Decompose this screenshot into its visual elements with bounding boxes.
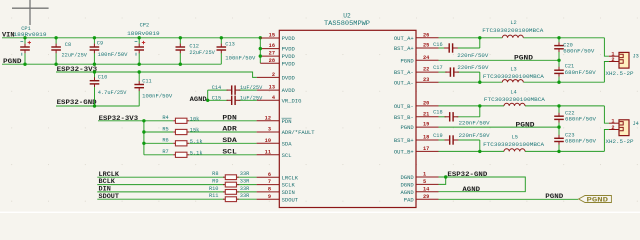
capacitor C9: [90, 38, 100, 64]
pin 27 PVDD: [260, 55, 279, 57]
svg-text:11: 11: [265, 149, 271, 155]
junction PVDD pin27: [259, 54, 262, 57]
wire ADR right: [189, 131, 256, 133]
svg-text:680nF/50V: 680nF/50V: [565, 116, 597, 122]
capacitor C15: [227, 96, 241, 105]
svg-text:L5: L5: [512, 135, 518, 141]
svg-text:R6: R6: [162, 138, 168, 144]
pin 4 VR_DIG: [257, 99, 280, 101]
wire VR_DIG right: [239, 99, 257, 101]
capacitor C18: [445, 112, 459, 121]
pin 7: [257, 184, 280, 186]
pin 28 PVDD: [260, 62, 279, 64]
wire SDOUT left: [97, 198, 224, 200]
svg-text:ESP32-GND: ESP32-GND: [447, 171, 487, 179]
capacitor C14: [227, 85, 241, 94]
wire SCL left: [144, 154, 173, 156]
wire BST_B- a: [439, 116, 447, 118]
wire BCLK left: [97, 184, 224, 186]
capacitor C21: [554, 60, 564, 82]
svg-text:23: 23: [423, 77, 429, 83]
svg-text:C11: C11: [142, 79, 152, 85]
junction 3V3 x139.2: [138, 70, 141, 73]
svg-text:22uF/25V: 22uF/25V: [62, 53, 88, 59]
svg-text:SDIN: SDIN: [282, 189, 295, 196]
svg-text:C14: C14: [212, 85, 222, 91]
svg-text:C9: C9: [97, 40, 103, 46]
wire PGND A: [439, 59, 560, 61]
svg-text:14: 14: [423, 186, 430, 192]
junction A (559.0,37.8): [557, 36, 560, 39]
svg-text:CP1: CP1: [21, 26, 31, 32]
junction B (559.0,151.4): [557, 150, 560, 153]
svg-text:2: 2: [611, 57, 614, 63]
pin 14: [416, 191, 439, 193]
svg-text:2: 2: [272, 72, 275, 78]
capacitor C11: [134, 72, 144, 106]
wire OUT_A+ b: [523, 37, 604, 39]
svg-text:AGND: AGND: [400, 189, 414, 196]
junction PVDD pin16: [259, 47, 262, 50]
svg-text:SCLK: SCLK: [282, 182, 296, 189]
svg-text:1: 1: [423, 172, 426, 178]
svg-text:9: 9: [268, 194, 271, 200]
wire BST_B- up: [479, 106, 481, 117]
svg-text:33R: 33R: [240, 193, 250, 199]
svg-text:R5: R5: [162, 126, 168, 132]
svg-text:DGND: DGND: [400, 182, 414, 189]
junction PGND x25: [23, 62, 26, 65]
pin 6: [257, 176, 280, 178]
wire BST_B+ down: [479, 140, 481, 151]
wire BST_A- down: [479, 72, 481, 82]
capacitor C23: [554, 127, 564, 151]
svg-text:15: 15: [269, 33, 275, 39]
svg-text:189Rv0019: 189Rv0019: [127, 31, 160, 37]
svg-text:6: 6: [268, 172, 271, 178]
svg-text:680nF/50V: 680nF/50V: [563, 48, 595, 54]
svg-text:PVDD: PVDD: [282, 35, 296, 42]
svg-text:R11: R11: [209, 193, 219, 199]
svg-text:C8: C8: [65, 42, 71, 48]
svg-text:PVDD: PVDD: [282, 46, 296, 53]
svg-text:PGND: PGND: [545, 193, 563, 201]
pin 9: [257, 198, 280, 200]
svg-text:12: 12: [265, 115, 271, 121]
junction B (559.0,127.1): [557, 125, 560, 128]
wire OUT_A- a: [439, 81, 503, 83]
svg-text:PVDD: PVDD: [282, 60, 296, 67]
svg-text:C17: C17: [433, 65, 443, 71]
svg-text:100nF/50V: 100nF/50V: [142, 94, 173, 100]
svg-text:20: 20: [423, 101, 429, 107]
svg-text:ADR: ADR: [222, 126, 237, 134]
wire DIN right: [237, 191, 256, 193]
svg-text:LRCLK: LRCLK: [282, 174, 299, 181]
pin 11: [257, 154, 280, 156]
wire ESP32-GND rail: [56, 105, 139, 107]
wire SDA right: [189, 142, 256, 144]
svg-text:1uF/25V: 1uF/25V: [240, 85, 263, 91]
resistor R5: [173, 129, 189, 134]
wire VIN rail: [2, 37, 260, 39]
pin 15 PVDD: [260, 37, 279, 39]
junction VIN x139.2: [138, 36, 141, 39]
svg-text:PGND: PGND: [514, 54, 533, 62]
wire BST_A+ b: [456, 47, 480, 49]
svg-text:XH2.5-2P: XH2.5-2P: [606, 71, 634, 77]
wire to J4 pin2: [604, 130, 609, 152]
svg-text:33R: 33R: [240, 186, 250, 192]
svg-text:220nF/50V: 220nF/50V: [459, 121, 491, 127]
pin 21: [416, 116, 439, 118]
junction 3V3dist PDN: [142, 119, 145, 122]
svg-text:ESP32-3V3: ESP32-3V3: [57, 66, 98, 74]
svg-text:PGND: PGND: [400, 124, 414, 131]
svg-text:R4: R4: [162, 115, 168, 121]
junction 3V3dist ADR: [142, 130, 145, 133]
capacitor C16: [444, 43, 458, 52]
svg-text:C19: C19: [433, 133, 443, 139]
wire AVDD left: [208, 89, 228, 91]
wire OUT_B+ a: [439, 150, 505, 152]
svg-text:BST_A+: BST_A+: [394, 45, 414, 52]
junction B (479.8,151.4): [478, 150, 481, 153]
svg-text:FTC3030200100MBCA: FTC3030200100MBCA: [484, 97, 546, 103]
svg-text:FTC3030200100MBCA: FTC3030200100MBCA: [482, 28, 544, 34]
junction VIN x56.1: [54, 36, 57, 39]
junction PGND x94.4: [93, 62, 96, 65]
pin 16 PVDD: [260, 48, 279, 50]
svg-text:DGND: DGND: [400, 174, 414, 181]
pin 12: [257, 120, 280, 122]
svg-text:J3: J3: [633, 54, 639, 60]
junction VIN x260.3: [259, 36, 262, 39]
svg-text:OUT_A-: OUT_A-: [394, 79, 414, 86]
junction 3V3 x94.5: [93, 70, 96, 73]
svg-text:AGND: AGND: [190, 96, 207, 104]
inductor L4: [504, 103, 525, 106]
svg-text:24: 24: [423, 55, 430, 61]
svg-text:DVDD: DVDD: [282, 75, 296, 82]
wire PGND rail: [2, 63, 221, 65]
junction A (479.8,37.8): [478, 36, 481, 39]
svg-text:BST_B+: BST_B+: [394, 137, 414, 144]
svg-text:5: 5: [423, 179, 426, 185]
svg-text:L4: L4: [510, 90, 516, 96]
wire OUT_B- a: [439, 105, 505, 107]
svg-text:220nF/50V: 220nF/50V: [457, 65, 489, 71]
svg-text:XH2.5-2P: XH2.5-2P: [606, 139, 634, 145]
svg-text:ESP32-3V3: ESP32-3V3: [99, 115, 139, 123]
svg-text:29: 29: [423, 194, 429, 200]
svg-text:OUT_B-: OUT_B-: [394, 103, 414, 110]
svg-text:AVDD: AVDD: [282, 87, 296, 94]
wire ESP32-3V3 rail to DVDD: [56, 72, 257, 77]
pin 26: [416, 37, 439, 39]
wire OUT_B+ b: [525, 150, 604, 152]
resistor R11: [223, 197, 239, 202]
svg-text:SCL: SCL: [282, 152, 292, 159]
svg-text:ESP32-GND: ESP32-GND: [57, 99, 97, 107]
svg-text:26: 26: [423, 32, 429, 38]
svg-text:2: 2: [611, 125, 614, 131]
junction A (559.0,82.2): [557, 81, 560, 84]
junction 3V3dist SDA: [142, 142, 145, 145]
capacitor C20: [554, 38, 564, 61]
pin 10: [257, 142, 280, 144]
svg-text:5.1k: 5.1k: [190, 150, 203, 156]
resistor R6: [173, 141, 189, 146]
junction PGND x139.2: [138, 62, 141, 65]
wire DGND-AGND loop: [439, 177, 526, 192]
svg-text:BST_A-: BST_A-: [394, 69, 414, 76]
pin 25: [416, 47, 439, 49]
resistor R9: [223, 182, 239, 187]
svg-text:VR_DIG: VR_DIG: [282, 97, 302, 104]
wire BCLK right: [237, 184, 256, 186]
svg-text:220nF/50V: 220nF/50V: [457, 53, 489, 59]
svg-text:SDA: SDA: [282, 140, 293, 147]
wire BST_B- b: [457, 116, 480, 118]
pin 5: [416, 183, 439, 185]
wire VR_DIG left: [207, 99, 228, 101]
junction DGND: [444, 175, 447, 178]
svg-text:CP2: CP2: [140, 22, 150, 28]
pin 19: [416, 126, 439, 128]
capacitor C17: [445, 67, 459, 76]
pin 22: [416, 71, 439, 73]
connector J4: [609, 118, 629, 135]
svg-text:10: 10: [265, 138, 271, 144]
wire to J3 pin2: [604, 62, 609, 83]
svg-text:15k: 15k: [190, 128, 200, 134]
svg-text:OUT_B+: OUT_B+: [394, 149, 414, 156]
svg-text:PVDD: PVDD: [282, 53, 296, 60]
svg-text:13: 13: [269, 85, 275, 91]
junction VIN x94.4: [93, 36, 96, 39]
svg-text:PGND: PGND: [400, 57, 414, 64]
wire ADR left: [144, 131, 173, 133]
svg-text:TAS5805MPWP: TAS5805MPWP: [324, 20, 370, 27]
svg-text:25: 25: [423, 43, 429, 49]
svg-text:21: 21: [423, 111, 429, 117]
wire BST_B+ a: [439, 139, 447, 141]
svg-text:10k: 10k: [190, 116, 200, 122]
wire BST_B+ b: [457, 139, 480, 141]
capacitor C12: [176, 38, 186, 64]
svg-text:4.7uF/25V: 4.7uF/25V: [98, 90, 127, 96]
svg-text:1: 1: [611, 118, 614, 124]
wire BST_A- b: [457, 71, 480, 73]
junction ESP32-GND x94: [93, 104, 96, 107]
junction PGND x56.1: [54, 62, 57, 65]
wire BST_A+ a: [439, 47, 446, 49]
svg-text:C15: C15: [212, 95, 222, 101]
wire AGND vertical: [207, 90, 209, 100]
wire LRCLK right: [237, 176, 256, 178]
pin 2 DVDD: [257, 76, 280, 78]
svg-text:U2: U2: [343, 12, 351, 19]
svg-text:22: 22: [423, 67, 429, 73]
resistor R10: [223, 190, 239, 195]
junction B (479.8,105.9): [478, 104, 481, 107]
wire PVDD vertical: [259, 38, 261, 63]
pin 17: [416, 150, 439, 152]
svg-text:C18: C18: [433, 109, 443, 115]
svg-text:220nF/50V: 220nF/50V: [459, 133, 491, 139]
wire SDA left: [144, 142, 173, 144]
pin 3: [257, 131, 280, 133]
svg-text:33R: 33R: [240, 179, 250, 185]
connector J3: [609, 51, 629, 68]
svg-text:R7: R7: [162, 149, 168, 155]
wire 3V3 distribution vertical: [143, 121, 145, 155]
svg-text:PGND: PGND: [587, 197, 609, 204]
svg-text:BST_B-: BST_B-: [394, 114, 414, 121]
pin 20: [416, 105, 439, 107]
wire BST_A- a: [439, 71, 447, 73]
inductor L3: [502, 80, 523, 83]
power symbol PGND global label: [579, 196, 612, 204]
wire SDOUT right: [237, 198, 256, 200]
svg-text:C16: C16: [433, 42, 443, 48]
capacitor C19: [445, 135, 459, 144]
junction VIN x221.3: [220, 36, 223, 39]
svg-text:SDA: SDA: [222, 137, 237, 145]
svg-text:ADR/*FAULT: ADR/*FAULT: [282, 129, 316, 136]
op-amp U2 TAS5805MPWP body: [279, 30, 416, 207]
junction VIN x25: [23, 36, 26, 39]
wire OUT_B- b: [525, 105, 604, 107]
svg-text:5.1k: 5.1k: [190, 139, 203, 145]
wire PAD to PGND: [439, 198, 579, 200]
wire BST_A+ up: [479, 38, 481, 48]
svg-text:8: 8: [268, 187, 271, 193]
wire PDN right: [189, 120, 256, 122]
junction VIN x180.3: [179, 36, 182, 39]
svg-text:PDN: PDN: [282, 118, 292, 125]
svg-text:L2: L2: [510, 20, 516, 26]
svg-text:16: 16: [269, 43, 275, 49]
svg-text:33R: 33R: [240, 171, 250, 177]
svg-text:189Rv0019: 189Rv0019: [14, 32, 47, 38]
wire OUT_A- b: [523, 81, 604, 83]
svg-text:PGND: PGND: [3, 58, 22, 66]
capacitor C22: [554, 106, 564, 127]
svg-text:C13: C13: [225, 41, 235, 47]
svg-text:18: 18: [423, 135, 429, 141]
wire SCL right: [189, 154, 256, 156]
svg-text:C20: C20: [563, 42, 573, 48]
svg-text:J4: J4: [633, 121, 639, 127]
junction A (479.8,82.2): [478, 81, 481, 84]
svg-text:22uF/25V: 22uF/25V: [189, 50, 215, 56]
svg-text:27: 27: [269, 51, 275, 57]
wire DGND pin5 link: [439, 177, 446, 184]
junction A (559.0,60.3): [557, 59, 560, 62]
pin 24: [416, 59, 439, 61]
svg-text:R9: R9: [212, 179, 218, 185]
svg-text:100nF/50V: 100nF/50V: [225, 55, 256, 61]
svg-text:1uF/25V: 1uF/25V: [240, 96, 263, 102]
svg-text:28: 28: [269, 58, 275, 64]
svg-text:C12: C12: [189, 43, 199, 49]
svg-text:SCL: SCL: [222, 148, 236, 156]
svg-text:C10: C10: [98, 74, 108, 80]
capacitor C13: [217, 38, 227, 64]
gray partial symbol top-left: [12, 0, 49, 25]
svg-text:19: 19: [423, 122, 429, 128]
svg-text:PAD: PAD: [404, 196, 415, 203]
svg-text:3: 3: [268, 127, 271, 133]
svg-text:PDN: PDN: [222, 114, 236, 122]
capacitor C8: [51, 38, 61, 64]
wire AVDD right: [239, 89, 257, 91]
pin 23: [416, 81, 439, 83]
svg-text:17: 17: [423, 146, 429, 152]
inductor L2: [502, 35, 523, 38]
resistor R4: [173, 118, 189, 123]
pin 8: [257, 191, 280, 193]
capacitor CP1 (polarized): [20, 38, 31, 64]
svg-text:R10: R10: [209, 186, 219, 192]
wire LRCLK left: [97, 176, 224, 178]
svg-text:FTC3030200100MBCA: FTC3030200100MBCA: [483, 74, 545, 80]
wire PDN left: [98, 120, 173, 122]
svg-text:FTC3030200100MBCA: FTC3030200100MBCA: [483, 142, 545, 148]
svg-text:680nF/50V: 680nF/50V: [565, 70, 597, 76]
svg-text:AGND: AGND: [462, 186, 480, 194]
svg-text:C21: C21: [565, 64, 575, 70]
pin 13 AVDD: [257, 89, 280, 91]
pin 29: [416, 198, 439, 200]
svg-text:7: 7: [268, 179, 271, 185]
capacitor CP2 (polarized): [134, 38, 145, 64]
wire PGND B: [439, 126, 560, 128]
svg-text:R8: R8: [212, 171, 218, 177]
pin 18: [416, 139, 439, 141]
junction PGND x180.3: [179, 62, 182, 65]
svg-text:680nF/50V: 680nF/50V: [565, 139, 597, 145]
svg-text:SDOUT: SDOUT: [282, 196, 299, 203]
svg-text:PGND: PGND: [516, 121, 535, 129]
wire DIN left: [97, 191, 224, 193]
pin 1: [416, 176, 439, 178]
resistor R7: [173, 152, 189, 157]
resistor R8: [223, 175, 239, 180]
junction B (559.0,105.9): [557, 104, 560, 107]
svg-text:L3: L3: [510, 67, 516, 73]
wire to J4 pin1: [604, 106, 609, 123]
wire to J3 pin1: [604, 38, 609, 56]
svg-text:100nF/50V: 100nF/50V: [98, 52, 129, 58]
wire OUT_A+ a: [439, 37, 503, 39]
inductor L5: [504, 149, 525, 152]
capacitor C10: [90, 72, 100, 106]
junction AGND: [206, 99, 209, 102]
svg-text:OUT_A+: OUT_A+: [394, 35, 414, 42]
